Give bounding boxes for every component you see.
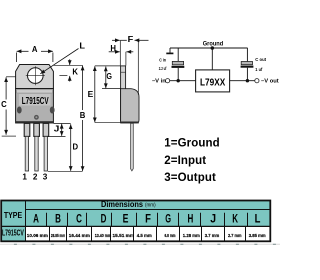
terminal -V out (255, 79, 259, 83)
table header text (4, 200, 156, 220)
svg-text:2.7 mm: 2.7 mm (228, 233, 242, 238)
letter row separators (47, 213, 248, 226)
pin number 2 (33, 173, 38, 182)
svg-text:3.85 mm: 3.85 mm (249, 233, 266, 238)
dimension H (109, 43, 134, 66)
svg-text:J: J (210, 212, 216, 226)
package U1 front view tab (16, 65, 54, 89)
node C out junction (246, 79, 249, 82)
svg-text:Dimensions: Dimensions (101, 200, 144, 209)
label C out (255, 57, 266, 72)
dimension B (48, 65, 85, 171)
ground rail wire (170, 47, 248, 49)
dimension J (48, 123, 66, 136)
svg-text:A: A (33, 212, 39, 226)
terminal -V in (166, 79, 170, 83)
label -V in (152, 79, 166, 85)
node ground junction (211, 46, 215, 50)
package body front (15, 89, 54, 124)
column letters (33, 212, 260, 226)
lead pin 2 (34, 123, 40, 171)
dimension F (112, 34, 149, 95)
svg-text:F: F (128, 34, 134, 44)
wire input (170, 80, 196, 82)
svg-text:2.2 uf: 2.2 uf (159, 66, 167, 71)
svg-text:3.7 mm: 3.7 mm (205, 233, 220, 238)
table row L7915CV (2, 228, 266, 238)
svg-text:4.5 mm: 4.5 mm (137, 233, 152, 238)
svg-text:1.28 mm: 1.28 mm (183, 233, 200, 238)
dimension L leader (40, 41, 85, 74)
dimension E (88, 66, 121, 123)
mounting hole (26, 66, 45, 85)
dimensions table (1, 201, 270, 242)
schematic ground label (203, 40, 224, 47)
svg-text:2: 2 (33, 173, 38, 182)
pin description 3 (164, 172, 216, 184)
svg-text:1: 1 (22, 173, 27, 182)
svg-text:F: F (145, 212, 151, 226)
svg-text:B: B (80, 110, 86, 120)
svg-text:–V in: –V in (152, 79, 166, 85)
dotted rule (0, 243, 280, 245)
svg-text:G: G (106, 71, 112, 81)
svg-text:1 uf: 1 uf (255, 67, 263, 72)
svg-text:L: L (255, 212, 261, 226)
wire output (230, 80, 255, 82)
svg-text:6.8 mm: 6.8 mm (165, 233, 176, 238)
dimension A (17, 44, 53, 62)
svg-text:C: C (76, 212, 82, 226)
svg-text:K: K (72, 66, 78, 76)
side view body (120, 89, 139, 124)
svg-text:A: A (32, 44, 38, 54)
svg-text:L79XX: L79XX (200, 78, 225, 89)
data row separators (50, 226, 246, 241)
svg-text:J: J (54, 123, 60, 133)
dimension D (54, 123, 79, 170)
svg-text:15.51 mm: 15.51 mm (113, 233, 135, 238)
lead pin 1 (24, 123, 30, 171)
svg-text:H: H (110, 43, 116, 53)
svg-text:C out: C out (255, 57, 266, 62)
svg-text:3: 3 (43, 173, 48, 182)
regulator U2 L79XX (196, 70, 230, 92)
lead pin 3 (43, 123, 49, 171)
pin number 3 (43, 173, 48, 182)
svg-text:(mm): (mm) (145, 202, 156, 208)
svg-text:3=Output: 3=Output (164, 172, 216, 184)
svg-text:16.44 mm: 16.44 mm (69, 233, 90, 238)
ground symbol (166, 48, 173, 53)
svg-text:H: H (188, 212, 194, 226)
dimension G (102, 67, 121, 89)
side view tab (121, 66, 126, 121)
svg-text:L7915CV: L7915CV (2, 228, 24, 238)
node C in junction (177, 79, 180, 82)
svg-text:G: G (165, 212, 171, 226)
side view lead (131, 123, 134, 170)
svg-text:L7915CV: L7915CV (22, 96, 49, 107)
dimension K (59, 59, 78, 81)
svg-text:C in: C in (159, 57, 166, 62)
svg-text:E: E (88, 89, 94, 99)
svg-text:–V out: –V out (261, 79, 279, 85)
svg-text:C: C (1, 99, 7, 109)
capacitor C out (241, 48, 254, 81)
label -V out (261, 79, 279, 85)
wire ground to regulator (211, 48, 213, 70)
svg-text:TYPE: TYPE (4, 210, 22, 220)
svg-text:28.85 mm: 28.85 mm (51, 233, 65, 238)
pin number 1 (22, 173, 27, 182)
svg-text:10.06 mm: 10.06 mm (27, 233, 48, 238)
capacitor C in (172, 48, 185, 81)
svg-text:2=Input: 2=Input (164, 155, 206, 167)
svg-text:D: D (101, 212, 107, 226)
svg-text:13.40 mm: 13.40 mm (95, 233, 112, 238)
label C in (159, 57, 167, 71)
svg-text:K: K (232, 212, 238, 226)
svg-text:1=Ground: 1=Ground (164, 138, 219, 150)
svg-text:L: L (79, 41, 85, 51)
svg-text:E: E (123, 212, 129, 226)
dimension C (1, 77, 16, 136)
svg-text:D: D (73, 141, 79, 151)
svg-text:B: B (55, 212, 61, 226)
pin description 2 (164, 155, 206, 167)
pin description 1 (164, 138, 219, 150)
